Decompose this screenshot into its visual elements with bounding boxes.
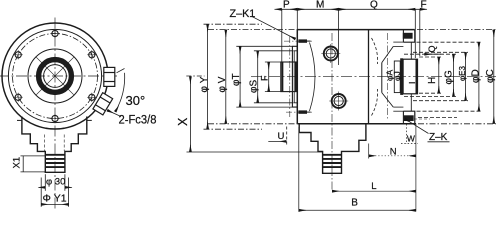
svg-text:φJ: φJ: [392, 71, 402, 81]
side base profile: [299, 124, 366, 174]
body bottom edge: [297, 123, 416, 125]
svg-text:2-Fc3/8: 2-Fc3/8: [119, 115, 157, 127]
svg-text:H: H: [427, 77, 438, 84]
dimension phiY: [204, 24, 263, 129]
rear top boss: [403, 30, 414, 43]
30deg arc arrow: [115, 73, 125, 112]
dimension L: [332, 190, 416, 192]
bolt hole 330deg: [89, 94, 95, 100]
bolt hole 270deg: [52, 115, 58, 121]
svg-text:P: P: [283, 0, 290, 11]
bolt hole 90deg: [52, 30, 58, 36]
conduit port 0deg: [104, 67, 115, 86]
hidden arcs bottom: [372, 89, 378, 116]
front view outer circle: [2, 23, 108, 129]
top dimension line P M Q F: [275, 9, 427, 65]
dimension B: [299, 127, 416, 212]
dimension phiS: [254, 51, 294, 103]
svg-text:L: L: [371, 181, 376, 192]
bolt hole 30deg: [89, 52, 95, 58]
body mid vertical edge: [368, 30, 370, 124]
bolt circle centerline: [13, 34, 98, 119]
dimension F shaft: [265, 62, 281, 92]
svg-text:φT: φT: [231, 73, 242, 86]
dimension phiG: [404, 54, 456, 96]
svg-text:Q: Q: [370, 0, 378, 11]
leader Z-K: [405, 119, 429, 134]
front view flange step circle: [8, 29, 101, 122]
conduit port 30deg: [93, 93, 113, 115]
dimension X1: [21, 156, 46, 172]
leader Z-K1: [252, 17, 296, 40]
rear face step verticals: [410, 42, 412, 59]
boss diagonal spokes: [36, 57, 74, 95]
svg-text:Z–K1: Z–K1: [230, 8, 256, 20]
side horizontal centerline: [251, 76, 498, 78]
svg-text:U: U: [278, 131, 285, 142]
svg-text:F: F: [259, 75, 269, 81]
bolt hole 210deg: [15, 94, 21, 100]
svg-text:F: F: [421, 0, 427, 11]
front base profile: [22, 117, 87, 173]
hidden arcs top: [372, 38, 378, 64]
center boss circle: [28, 49, 82, 103]
base shoulder ledge right: [87, 119, 92, 121]
tapped hole Z-K1 top: [298, 39, 307, 42]
rear shaft: [403, 59, 417, 94]
dimension U: [268, 127, 286, 146]
housing silhouette arc: [310, 43, 316, 112]
svg-text:φ Y: φ Y: [199, 76, 210, 92]
rear flange left face: [381, 63, 383, 93]
rear flange chamfer bottom: [382, 93, 394, 108]
flange pilot step: [294, 51, 297, 103]
cover screw upper: [324, 47, 338, 61]
bolt hole center ticks: [14, 29, 97, 123]
dimension N: [369, 124, 416, 212]
svg-text:X: X: [176, 117, 190, 126]
dimension X: [186, 76, 322, 152]
base shoulder ledge left: [17, 119, 22, 121]
svg-text:N: N: [390, 147, 397, 158]
conduit stub threads: [46, 155, 65, 167]
rear top screw Z-K1b: [403, 33, 413, 39]
front vertical centerline: [54, 18, 56, 210]
rear bottom boss: [403, 111, 414, 124]
front flange bolt circle centerline: [289, 36, 291, 117]
rear flange chamfer top: [382, 46, 394, 62]
svg-text:Φ Y1: Φ Y1: [43, 193, 67, 205]
dimension phiE: [413, 52, 468, 100]
svg-text:φC: φC: [485, 69, 496, 83]
svg-text:φ 30: φ 30: [46, 177, 65, 188]
svg-text:M: M: [316, 0, 324, 11]
svg-text:φS: φS: [248, 80, 259, 93]
side stub threads: [323, 155, 341, 167]
svg-text:φ V: φ V: [217, 76, 228, 92]
rear inner face: [402, 30, 404, 43]
dimension W: [401, 124, 418, 144]
boss end faces: [281, 62, 283, 92]
svg-text:Q: Q: [427, 45, 437, 52]
hub face band: [400, 58, 403, 95]
rear bottom screw Z-K: [404, 115, 414, 121]
dimension Q rear: [424, 53, 441, 55]
body front face: [296, 30, 298, 124]
dimension phi30: [39, 174, 72, 191]
front boss: [281, 62, 298, 92]
tapped hole bottom: [298, 110, 307, 113]
dimension phiV: [208, 30, 297, 124]
shaft dark ring: [39, 60, 72, 93]
dimension phiT: [236, 46, 292, 107]
rear flange top silhouette: [393, 45, 403, 47]
dimension phiD: [417, 42, 482, 111]
dimension phiC: [417, 30, 496, 124]
svg-text:B: B: [351, 198, 358, 209]
rear shaft end face: [416, 59, 418, 94]
body top edge: [297, 29, 415, 31]
svg-text:φD: φD: [471, 69, 482, 83]
leader to 2-Fc3/8: [107, 110, 121, 116]
svg-text:X1: X1: [12, 157, 23, 169]
svg-text:30°: 30°: [126, 93, 146, 108]
svg-text:I: I: [407, 82, 417, 84]
svg-text:Z–K: Z–K: [429, 132, 448, 143]
front horizontal centerline: [0, 75, 119, 77]
dimension H: [419, 57, 442, 93]
svg-text:φG: φG: [444, 70, 455, 84]
svg-text:φE3: φE3: [458, 65, 467, 81]
bolt hole 150deg: [15, 52, 21, 58]
shaft bore circle: [44, 65, 67, 88]
30deg angle extension line: [117, 69, 125, 73]
hub step: [394, 61, 400, 93]
rear flange bottom silhouette: [393, 106, 403, 108]
svg-text:W: W: [407, 133, 415, 143]
stub centerline: [331, 33, 333, 191]
dimension phiY1: [41, 178, 68, 207]
rear bolt circle centerline: [386, 33, 388, 121]
cover screw lower: [332, 94, 346, 108]
base hidden hole lines: [44, 135, 64, 152]
flange plate: [292, 46, 297, 107]
